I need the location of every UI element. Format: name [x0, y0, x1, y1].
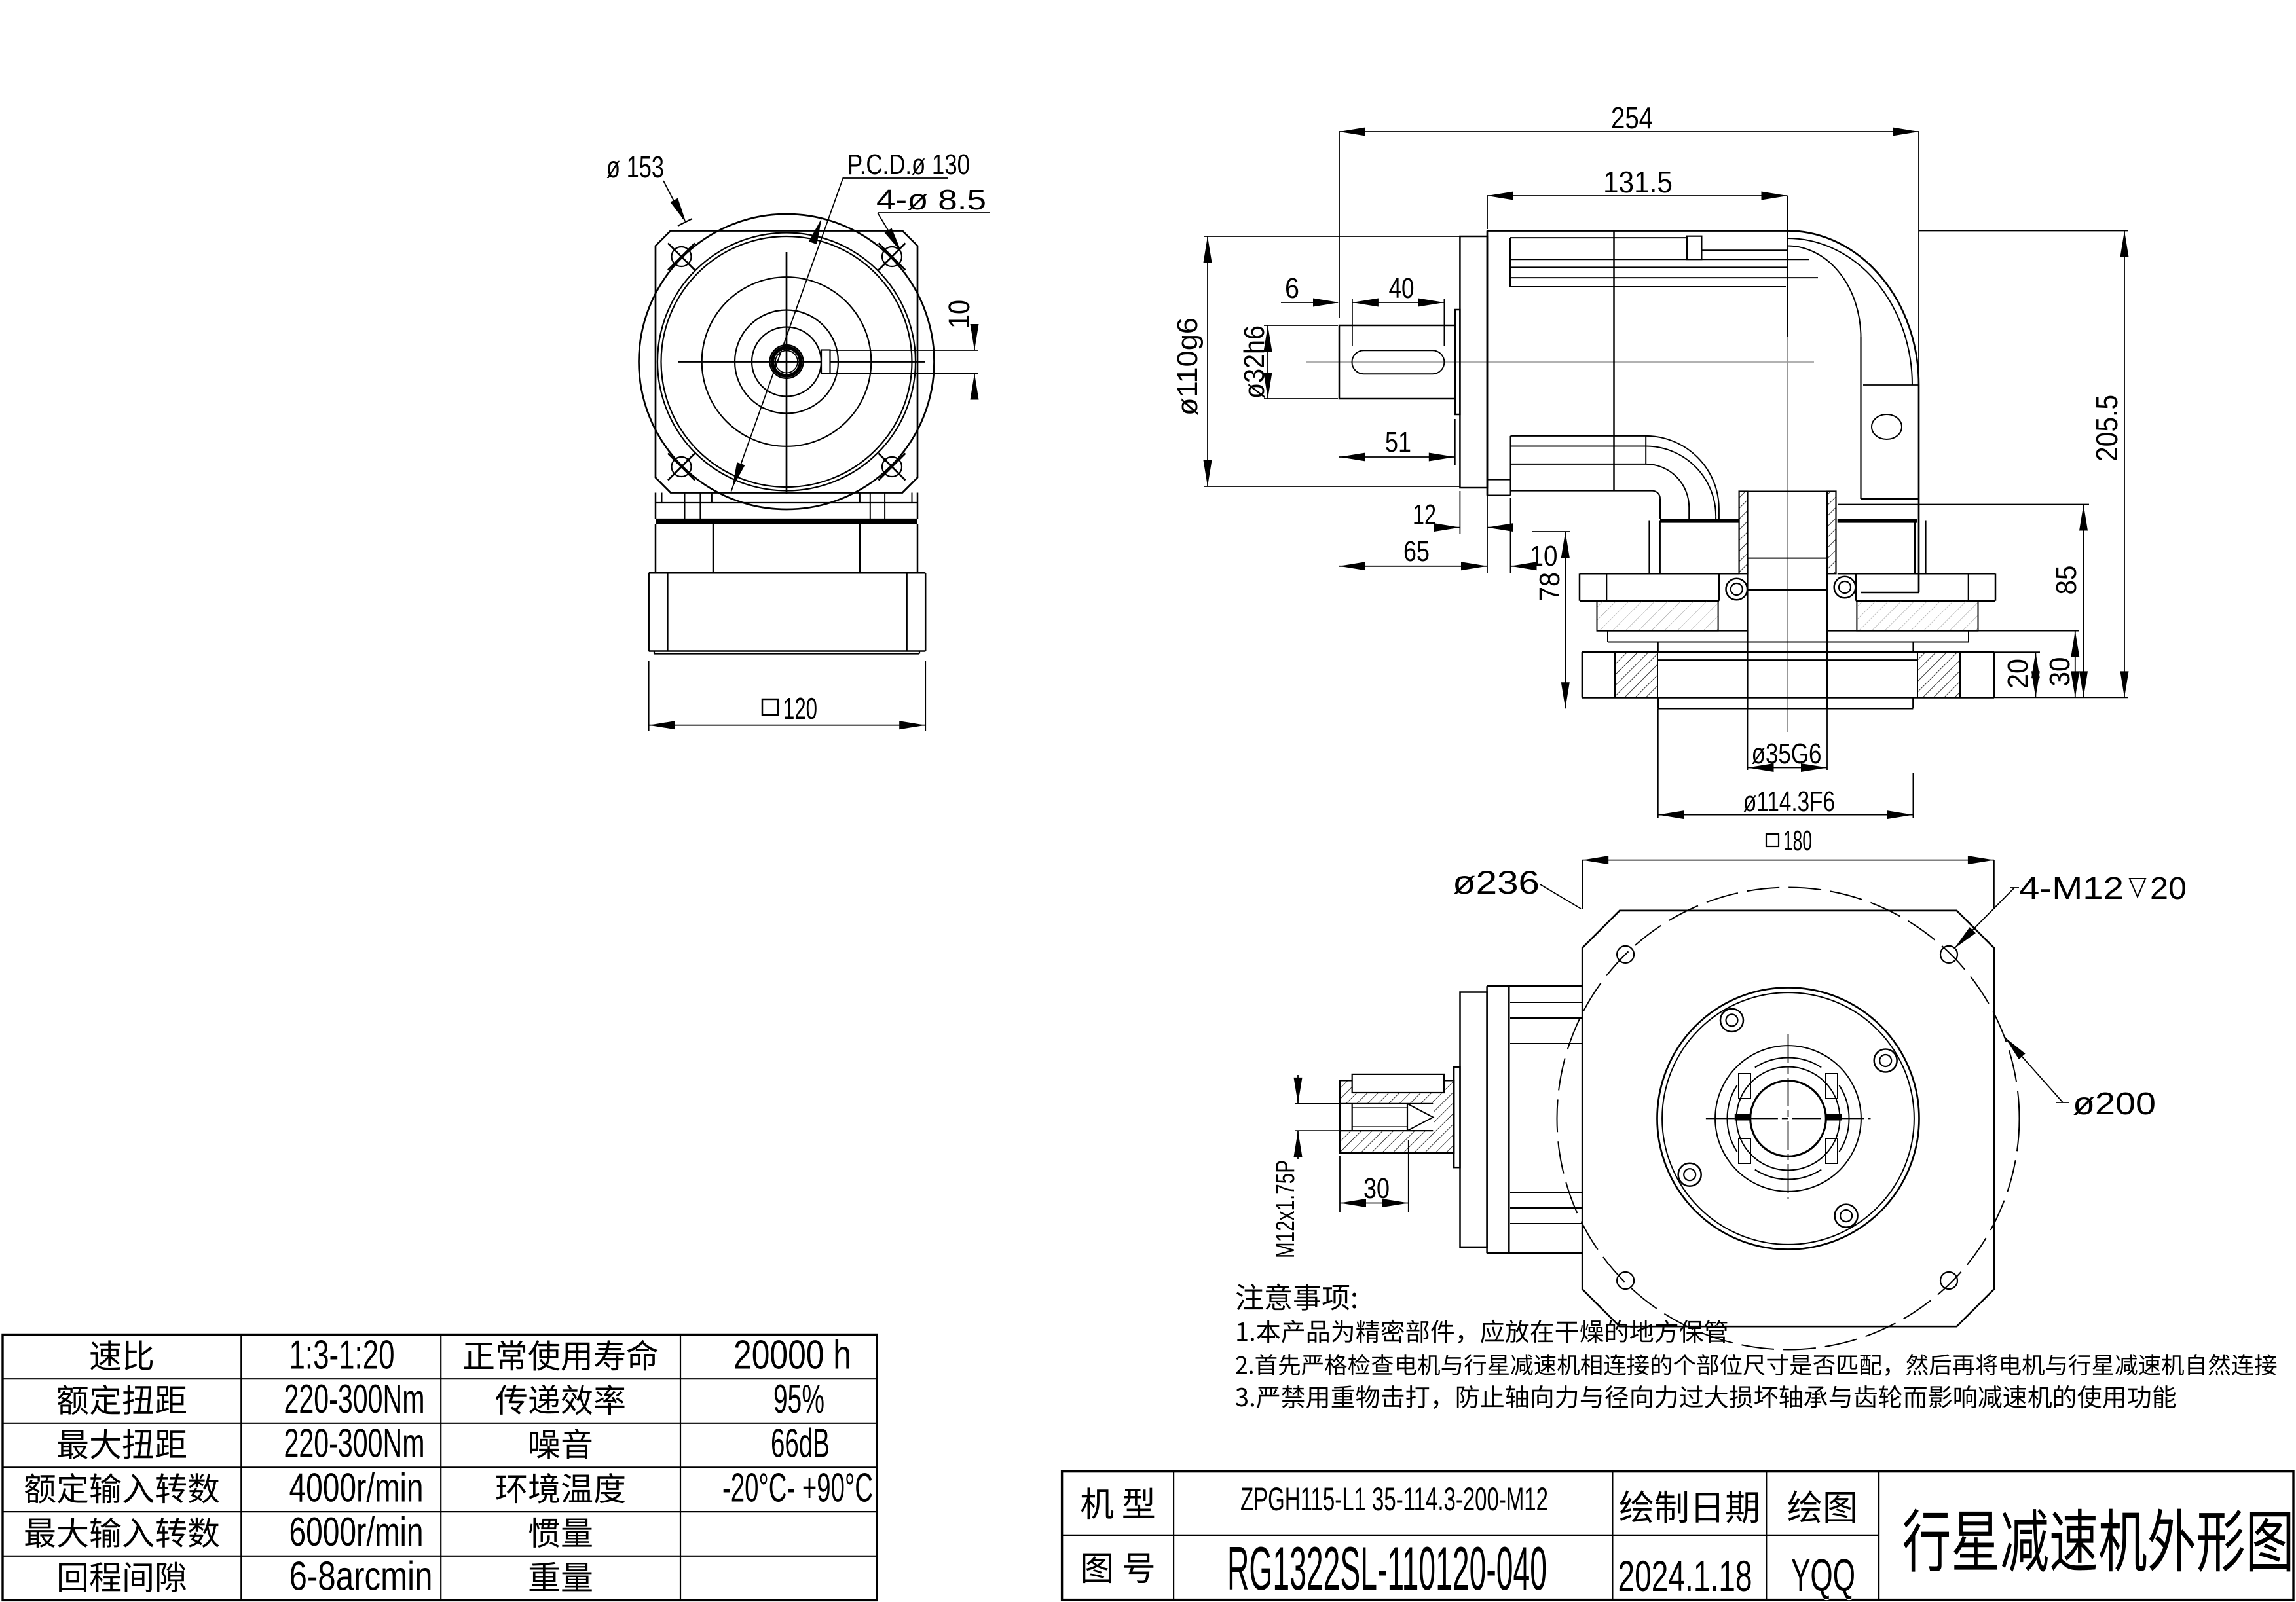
elbow arcs: [1646, 436, 1719, 519]
pilot boss d110: [1460, 236, 1487, 488]
adapter plate tick strip 1: [656, 493, 917, 503]
svg-text:ø110g6: ø110g6: [1172, 318, 1204, 416]
label diameter 153: [606, 150, 692, 226]
svg-text:30: 30: [2044, 657, 2076, 687]
front view circle d36: [752, 327, 821, 397]
bottom boss d110: [1460, 992, 1487, 1247]
svg-text:P.C.D.ø 130: P.C.D.ø 130: [847, 149, 970, 181]
body top-right curve outer: [1788, 231, 1919, 386]
svg-text:180: 180: [1783, 825, 1812, 857]
svg-text:254: 254: [1611, 101, 1653, 135]
dimension 30 flange: [1978, 631, 2080, 698]
side view input centerline: [1306, 361, 1814, 363]
svg-text:65: 65: [1403, 536, 1430, 568]
bottom view square: [1582, 911, 1994, 1326]
svg-text:10: 10: [942, 300, 976, 329]
elbow pipe bottom: [1511, 491, 1661, 519]
dimension square 120: [649, 661, 925, 731]
dimension 205.5: [1919, 231, 2129, 698]
label PCD 130: [843, 149, 970, 181]
4 socket screws: [1678, 1009, 1897, 1228]
top fin lines: [1510, 238, 1818, 287]
front view horizontal centerline: [678, 361, 925, 363]
svg-text:4000r/min: 4000r/min: [289, 1465, 424, 1510]
title block labels: [1081, 1487, 1855, 1583]
dimension square 180: [1582, 825, 1994, 909]
threaded hole: [1340, 1104, 1433, 1131]
svg-text:85: 85: [2050, 566, 2083, 595]
svg-text:1:3-1:20: 1:3-1:20: [289, 1332, 395, 1377]
body bottom right edge: [1861, 499, 1919, 592]
front view keyway extension lines: [830, 350, 979, 374]
notes line 3: [1236, 1385, 2176, 1409]
svg-text:120: 120: [783, 691, 817, 725]
svg-text:6-8arcmin: 6-8arcmin: [289, 1554, 433, 1599]
front view 4 bolt holes: [668, 244, 906, 481]
bottom fin lines: [1511, 436, 1646, 464]
notes line 1: [1237, 1320, 1727, 1343]
svg-text:20000 h: 20000 h: [733, 1332, 851, 1377]
svg-text:30: 30: [1363, 1173, 1390, 1205]
svg-text:20: 20: [2002, 659, 2034, 689]
dimension 30 stud: [1340, 1140, 1409, 1212]
hub notch rects: [1727, 1057, 1849, 1179]
dimension 40: [1352, 272, 1445, 346]
svg-text:131.5: 131.5: [1603, 165, 1673, 199]
body bottom-left step: [1487, 464, 1511, 496]
front view flange circle d153: [639, 214, 935, 509]
clamp bolts section: [1726, 577, 1856, 600]
bottom shaft hatched: [1340, 1080, 1454, 1153]
svg-text:66dB: 66dB: [771, 1421, 830, 1466]
flange plate hatch blocks: [1615, 652, 1960, 697]
bore circle: [1750, 1081, 1826, 1157]
thick separation line: [656, 520, 917, 524]
bottom view dashed circle: [1557, 888, 2020, 1350]
brake mounting face thick line: [1660, 519, 1917, 522]
body top-right curve inner1: [1788, 238, 1913, 385]
svg-text:YQQ: YQQ: [1791, 1550, 1855, 1601]
notes line 2: [1236, 1354, 2276, 1376]
dimension 51: [1339, 419, 1455, 465]
adapter mid block: [649, 524, 925, 573]
svg-text:ø236: ø236: [1453, 864, 1540, 901]
hub circle: [1737, 1067, 1840, 1171]
clamp band: [1580, 573, 1995, 600]
oil plug ellipse: [1872, 414, 1902, 439]
svg-text:10: 10: [1530, 540, 1558, 572]
label 4-d8.5: [876, 184, 990, 253]
mid surface line: [1597, 630, 1978, 632]
label 4-M12 depth 20: [1954, 871, 2187, 949]
svg-text:ø35G6: ø35G6: [1752, 738, 1822, 770]
body top-right curve inner2: [1788, 246, 1861, 338]
svg-text:205.5: 205.5: [2090, 395, 2124, 462]
svg-text:95%: 95%: [773, 1377, 824, 1422]
bearing blocks light hatch: [1597, 601, 1978, 631]
top connector box: [1687, 236, 1701, 260]
spigot ring: [1658, 697, 1914, 708]
body left face: [1487, 231, 1489, 496]
adapter plate tick strip 2: [656, 503, 917, 519]
svg-text:ø114.3F6: ø114.3F6: [1743, 786, 1835, 818]
PCD diagonal line: [731, 177, 844, 492]
partition vertical: [1613, 231, 1615, 492]
svg-text:ø32h6: ø32h6: [1238, 325, 1270, 399]
dimension d32h6: [1238, 325, 1338, 399]
notes title: [1236, 1284, 1356, 1311]
svg-text:4-M12: 4-M12: [2019, 871, 2124, 906]
dimension 131.5: [1487, 165, 1788, 337]
side view output centerline: [1787, 262, 1788, 732]
dimension 20 flange: [1994, 652, 2040, 697]
output hub walls hatched: [1739, 492, 1836, 574]
label d200: [2005, 1037, 2156, 1121]
dimension 10 left: [1511, 498, 1558, 573]
bottom body edges: [1487, 986, 1582, 1253]
dimension d110g6: [1172, 236, 1460, 486]
svg-text:40: 40: [1389, 272, 1415, 304]
svg-text:20: 20: [2150, 871, 2187, 906]
spec table grid: [3, 1335, 877, 1601]
4 M12 tapped holes: [1617, 946, 1957, 1289]
spec table contents: [25, 1332, 873, 1599]
drawing title: [1903, 1509, 2290, 1572]
dimension d114.3F6: [1658, 708, 1914, 819]
front view shaft bore rings: [770, 345, 804, 378]
dimension d35G6: [1748, 708, 1828, 772]
svg-text:6000r/min: 6000r/min: [289, 1510, 424, 1555]
dimension 78: [1532, 532, 1570, 708]
input shaft outline: [1339, 325, 1455, 399]
dimension 85: [1838, 505, 2089, 698]
bottom step ring: [1454, 1067, 1460, 1168]
svg-text:ø 153: ø 153: [606, 150, 664, 184]
svg-text:12: 12: [1413, 499, 1436, 531]
svg-text:-20°C- +90°C: -20°C- +90°C: [722, 1465, 873, 1510]
svg-text:220-300Nm: 220-300Nm: [284, 1421, 425, 1466]
dimension 254: [1339, 101, 1919, 383]
bottom fins: [1510, 1002, 1582, 1224]
spigot circle double: [1657, 988, 1919, 1250]
title block values: [1227, 1481, 1855, 1602]
svg-text:220-300Nm: 220-300Nm: [284, 1377, 425, 1422]
shaft step ring: [1455, 310, 1460, 414]
svg-text:RG1322SL-110120-040: RG1322SL-110120-040: [1227, 1534, 1547, 1602]
bottom view crosshair: [1706, 1034, 1871, 1199]
svg-text:ZPGH115-L1 35-114.3-200-M12: ZPGH115-L1 35-114.3-200-M12: [1240, 1481, 1548, 1518]
motor block: [649, 573, 925, 653]
svg-text:ø200: ø200: [2073, 1087, 2156, 1121]
dimension 12: [1413, 491, 1513, 534]
ledge under curve: [1863, 384, 1918, 386]
label M12x1.75P: [1271, 1075, 1340, 1258]
bell housing walls: [1650, 521, 1926, 574]
dimension 6: [1281, 272, 1339, 307]
sub plate: [1608, 631, 1969, 653]
input shaft keyway: [1352, 350, 1445, 374]
body top edge: [1487, 230, 1788, 232]
svg-text:2024.1.18: 2024.1.18: [1618, 1552, 1752, 1600]
title block grid: [1062, 1472, 2293, 1600]
key on shaft: [1352, 1074, 1444, 1093]
front view keyway rectangle: [821, 350, 830, 374]
svg-text:51: 51: [1385, 426, 1411, 458]
svg-text:6: 6: [1285, 272, 1299, 304]
front view register circle outer: [657, 233, 916, 491]
front view circle d88: [702, 277, 872, 446]
flange plate outline: [1582, 652, 1994, 697]
front view vertical centerline: [786, 252, 788, 494]
output bore walls: [1748, 558, 1828, 709]
retainer circle: [1715, 1046, 1861, 1192]
label d236: [1453, 864, 1581, 909]
svg-text:4-ø 8.5: 4-ø 8.5: [876, 184, 986, 216]
body right edge: [1918, 385, 1920, 592]
bore keyway marks: [1735, 1114, 1842, 1121]
dimension 65: [1339, 496, 1487, 573]
svg-text:78: 78: [1534, 572, 1566, 601]
body inner vertical: [1860, 337, 1861, 499]
dimension 10 keyway: [942, 300, 979, 400]
front view square flange outline: [656, 231, 917, 493]
flange recess line: [1657, 659, 1917, 661]
svg-text:M12x1.75P: M12x1.75P: [1271, 1160, 1300, 1258]
front view register circle inner: [661, 236, 912, 487]
front view circle d54: [735, 310, 838, 414]
